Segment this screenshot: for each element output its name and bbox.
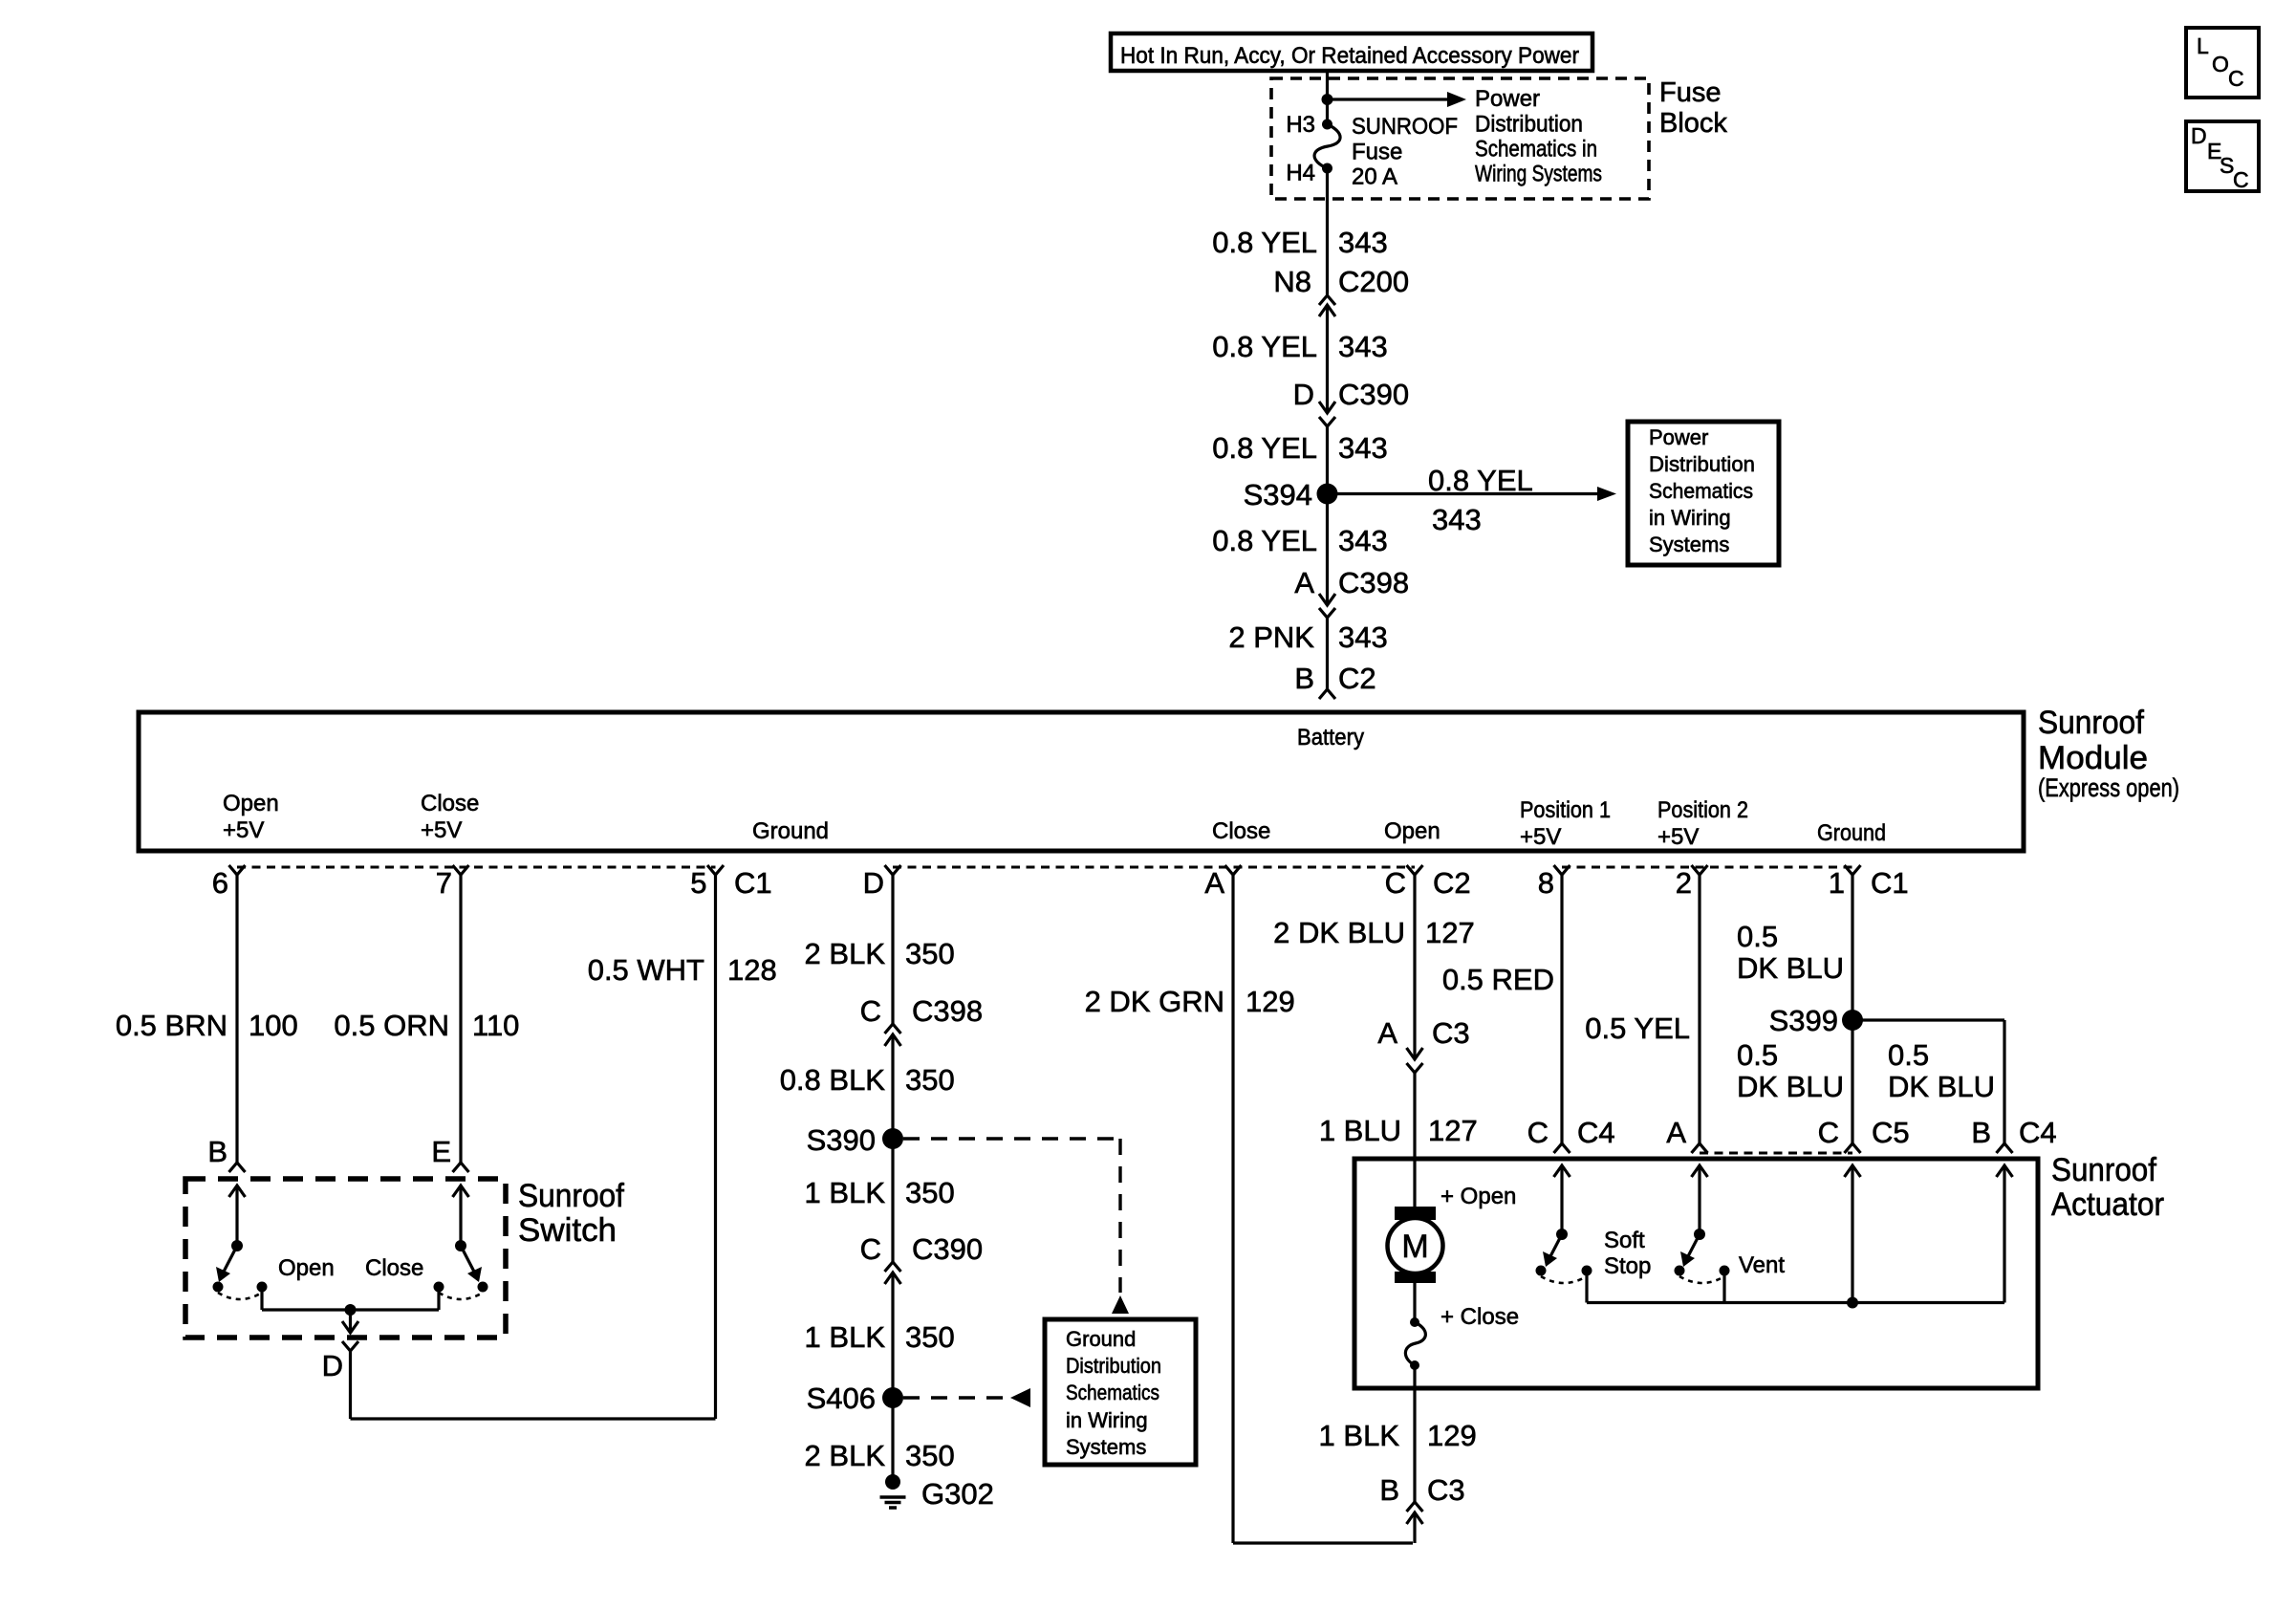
svg-text:Distribution: Distribution: [1066, 1354, 1161, 1378]
svg-text:2: 2: [1676, 866, 1692, 900]
soft stop contact (arm rest): [1536, 1266, 1547, 1276]
wire: motor to thermal contact: [1413, 1283, 1416, 1322]
label: Ground (pin 5 function): [752, 818, 829, 844]
switch: close-side input arrow and pivot: [453, 1186, 469, 1251]
label: Sunroof Module (Express open): [2038, 705, 2179, 802]
svg-text:0.5: 0.5: [1737, 1038, 1778, 1072]
svg-text:DK BLU: DK BLU: [1737, 1070, 1844, 1103]
svg-text:Switch: Switch: [518, 1212, 617, 1249]
svg-text:2 BLK: 2 BLK: [805, 1439, 886, 1472]
svg-text:1: 1: [1829, 866, 1845, 900]
svg-text:1 BLK: 1 BLK: [805, 1320, 886, 1354]
svg-text:0.8 YEL: 0.8 YEL: [1212, 330, 1317, 363]
svg-text:0.5: 0.5: [1737, 920, 1778, 953]
svg-text:C200: C200: [1338, 265, 1409, 298]
label: 1 BLK 350 (S390 to C390): [805, 1176, 955, 1209]
label: + Open (motor terminal): [1440, 1184, 1516, 1209]
label: 0.8 YEL 343 (fuse to C200): [1212, 226, 1387, 259]
svg-text:0.5 YEL: 0.5 YEL: [1585, 1012, 1690, 1045]
svg-text:in Wiring: in Wiring: [1066, 1408, 1148, 1432]
svg-text:C3: C3: [1427, 1473, 1465, 1507]
svg-text:C4: C4: [1577, 1116, 1615, 1149]
wire: C200 to C390: [1326, 305, 1329, 413]
vent contact (arm rest): [1675, 1266, 1685, 1276]
actuator pin B connector C4: [1971, 1116, 2056, 1153]
actuator: pin B (C4) sense wire with arrow: [1997, 1165, 2013, 1303]
node box: Ground Distribution Schematics in Wiring Systems: [1045, 1319, 1196, 1465]
svg-text:E: E: [431, 1135, 451, 1168]
svg-text:343: 343: [1338, 431, 1388, 465]
svg-text:C1: C1: [1871, 866, 1909, 900]
vent switch arm: [1680, 1234, 1700, 1267]
svg-text:0.5: 0.5: [1888, 1038, 1929, 1072]
svg-text:Fuse: Fuse: [1352, 140, 1402, 165]
module pin 7: [436, 865, 469, 900]
svg-text:350: 350: [905, 1439, 955, 1472]
svg-text:Systems: Systems: [1649, 533, 1729, 556]
svg-text:C: C: [860, 994, 881, 1028]
svg-text:B: B: [1294, 662, 1314, 695]
node: Hot In Run, Accy, Or Retained Accessory Power (power feed box): [1111, 33, 1592, 71]
svg-text:0.5 ORN: 0.5 ORN: [334, 1009, 449, 1042]
wire: vent contact down: [1722, 1271, 1725, 1303]
wire: header to H3: [1326, 71, 1329, 124]
svg-text:Schematics in: Schematics in: [1475, 137, 1597, 163]
svg-text:G302: G302: [921, 1477, 994, 1511]
svg-text:1 BLU: 1 BLU: [1319, 1114, 1401, 1147]
svg-text:350: 350: [905, 1063, 955, 1097]
svg-text:A: A: [1204, 866, 1224, 900]
svg-text:0.8 YEL: 0.8 YEL: [1428, 464, 1533, 497]
svg-text:Sunroof: Sunroof: [518, 1178, 625, 1214]
label: Vent: [1739, 1252, 1785, 1278]
svg-text:C: C: [1385, 866, 1406, 900]
svg-text:Vent: Vent: [1739, 1252, 1785, 1278]
svg-text:Ground: Ground: [1817, 820, 1886, 846]
wire: C390 to S394: [1326, 426, 1329, 494]
label: 0.5 YEL: [1585, 1012, 1690, 1045]
label: 0.5 DK BLU (S399 to C5): [1737, 1038, 1844, 1103]
svg-text:C1: C1: [734, 866, 772, 900]
wire: S399 branch right and down: [1852, 1020, 2004, 1143]
svg-text:Position 2: Position 2: [1657, 797, 1748, 823]
svg-text:C: C: [1527, 1116, 1549, 1149]
svg-text:N8: N8: [1273, 265, 1311, 298]
module pin C connector C2: [1385, 865, 1471, 900]
svg-text:Distribution: Distribution: [1475, 112, 1583, 138]
svg-text:Actuator: Actuator: [2051, 1186, 2164, 1223]
svg-text:110: 110: [472, 1009, 519, 1042]
motor protector contact (bottom): [1410, 1360, 1419, 1370]
svg-text:0.5 BRN: 0.5 BRN: [116, 1009, 227, 1042]
svg-text:Sunroof: Sunroof: [2051, 1152, 2157, 1188]
svg-text:Sunroof: Sunroof: [2038, 705, 2145, 741]
junction: sense bus / C5 wire: [1847, 1297, 1858, 1309]
svg-text:SUNROOF: SUNROOF: [1352, 114, 1458, 140]
svg-text:+5V: +5V: [223, 817, 264, 843]
svg-text:C398: C398: [1338, 566, 1409, 599]
svg-text:Close: Close: [365, 1255, 423, 1281]
label: Sunroof Switch: [518, 1178, 625, 1249]
svg-text:2 BLK: 2 BLK: [805, 937, 886, 970]
svg-text:C2: C2: [1338, 662, 1376, 695]
label: Close (switch position): [365, 1255, 423, 1281]
label: Sunroof Actuator: [2051, 1152, 2164, 1223]
svg-text:5: 5: [690, 866, 706, 900]
svg-text:0.8 YEL: 0.8 YEL: [1212, 524, 1317, 557]
switch pin E: [431, 1135, 468, 1172]
dashed reference: S390 to Ground Distribution box: [903, 1139, 1129, 1314]
svg-text:C4: C4: [2019, 1116, 2057, 1149]
svg-text:+5V: +5V: [1520, 824, 1561, 850]
svg-text:L: L: [2197, 33, 2209, 58]
dashed connector group line (actuator pins A,C): [1700, 1152, 1852, 1155]
svg-text:Schematics: Schematics: [1066, 1381, 1159, 1404]
wire: position sense bus: [1587, 1301, 2004, 1304]
svg-text:C390: C390: [912, 1232, 983, 1266]
actuator: pin C (C5) sense wire with arrow: [1845, 1165, 1861, 1303]
svg-text:DK BLU: DK BLU: [1888, 1070, 1995, 1103]
svg-text:A: A: [1666, 1116, 1686, 1149]
dashed throw arc (vent): [1679, 1276, 1724, 1283]
label: Open (pin C function): [1384, 818, 1440, 844]
module pin D: [863, 865, 901, 900]
wire: module pin A down: [1231, 875, 1234, 1543]
svg-text:S390: S390: [807, 1123, 876, 1157]
wire: switch common bus: [262, 1308, 439, 1311]
label: 2 BLK 350 (pin D to C398): [805, 937, 955, 970]
svg-text:B: B: [1971, 1116, 1991, 1149]
label: 0.8 YEL 343 (S394 to C398): [1212, 524, 1387, 557]
svg-text:Hot In Run, Accy, Or Retained: Hot In Run, Accy, Or Retained Accessory …: [1120, 43, 1579, 69]
svg-text:343: 343: [1338, 524, 1388, 557]
svg-text:C398: C398: [912, 994, 983, 1028]
label: 0.5 WHT 128: [588, 953, 777, 987]
wire/arrow: S394 branch 0.8 YEL 343 to Power Distribution Schematics: [1328, 464, 1617, 536]
svg-text:8: 8: [1538, 866, 1554, 900]
wire: module pin 1 to S399: [1851, 875, 1853, 1020]
module pin 2: [1676, 865, 1708, 900]
wire: module pin D to C398: [891, 875, 894, 1024]
node box: Power Distribution Schematics in Wiring Systems: [1628, 422, 1779, 565]
label: 2 DK BLU 127: [1273, 916, 1475, 949]
svg-text:H4: H4: [1286, 161, 1315, 186]
wire: module pin 5 down: [714, 875, 717, 1419]
label: 0.5 DK BLU (S399 branch): [1888, 1038, 1995, 1103]
svg-text:Close: Close: [1212, 818, 1270, 844]
svg-text:B: B: [1379, 1473, 1399, 1507]
svg-text:343: 343: [1432, 503, 1482, 536]
svg-text:7: 7: [436, 866, 452, 900]
splice S394: [1244, 478, 1338, 511]
fuse block (dashed outline): [1271, 78, 1649, 199]
svg-text:Block: Block: [1659, 108, 1727, 139]
switch contact Open: [257, 1282, 268, 1293]
svg-text:129: 129: [1427, 1419, 1477, 1452]
actuator pin C connector C5: [1818, 1116, 1910, 1153]
svg-text:Wiring Systems: Wiring Systems: [1475, 162, 1602, 187]
connector C398 pin A (in-line, arrow down): [1294, 566, 1409, 618]
LOC reference box: [2186, 28, 2259, 98]
wire: module pin 2 to actuator pin A: [1698, 875, 1700, 1143]
svg-text:DK BLU: DK BLU: [1737, 951, 1844, 985]
svg-text:S394: S394: [1244, 478, 1312, 511]
label: 2 PNK 343: [1228, 620, 1387, 654]
actuator: vent input arrow and pivot: [1692, 1165, 1708, 1240]
svg-text:+5V: +5V: [421, 817, 462, 843]
switch contact (arm rest, close side): [478, 1282, 488, 1293]
label: 0.8 YEL 343 (C200 to C390): [1212, 330, 1387, 363]
Sunroof Switch box (dashed): [185, 1179, 506, 1338]
module pin 6: [212, 865, 246, 900]
connector C390 pin D (in-line, arrow down): [1293, 378, 1410, 426]
svg-text:Power: Power: [1649, 425, 1708, 449]
svg-text:343: 343: [1338, 226, 1388, 259]
svg-text:S399: S399: [1769, 1004, 1838, 1037]
wire: C3 to motor: [1413, 1073, 1416, 1207]
svg-text:Soft: Soft: [1604, 1228, 1645, 1253]
module pin 8: [1538, 865, 1570, 900]
svg-text:A: A: [1294, 566, 1314, 599]
label: Close +5V (pin 7 function): [421, 791, 479, 843]
label: 0.5 BRN 100: [116, 1009, 298, 1042]
svg-text:Position 1: Position 1: [1520, 797, 1611, 823]
label: Soft Stop: [1604, 1228, 1651, 1279]
label: 1 BLK 350 (C390 to S406): [805, 1320, 955, 1354]
wire: Open contact down: [260, 1287, 263, 1310]
label: 2 DK GRN 129: [1085, 985, 1295, 1018]
svg-text:0.8 BLK: 0.8 BLK: [780, 1063, 886, 1097]
splice S390: [807, 1123, 903, 1157]
svg-text:C: C: [2233, 167, 2249, 192]
svg-text:M: M: [1401, 1229, 1428, 1265]
module pin 1 connector C1: [1829, 865, 1909, 900]
module pin 5 connector C1: [690, 865, 771, 900]
svg-text:Fuse: Fuse: [1659, 77, 1721, 108]
label: Ground (pin 1 function): [1817, 820, 1886, 846]
svg-text:100: 100: [249, 1009, 298, 1042]
wire: D run right to pin-5 wire: [351, 1417, 716, 1420]
label: Close (pin A function): [1212, 818, 1270, 844]
svg-text:0.5 RED: 0.5 RED: [1442, 963, 1554, 996]
svg-text:1 BLK: 1 BLK: [805, 1176, 886, 1209]
label: 1 BLK 129: [1319, 1419, 1477, 1452]
wire: motor return through box: [1413, 1365, 1416, 1502]
wire: pin A run to motor return: [1233, 1541, 1413, 1544]
svg-text:Distribution: Distribution: [1649, 452, 1755, 476]
svg-text:H3: H3: [1286, 112, 1315, 138]
svg-text:Battery: Battery: [1297, 725, 1364, 751]
motor M (sunroof motor): [1388, 1207, 1443, 1283]
wire: module pin 7 to switch pin E: [459, 875, 462, 1163]
wire: Close contact down: [437, 1287, 440, 1310]
label: 1 BLU 127: [1319, 1114, 1478, 1147]
svg-text:C: C: [860, 1232, 881, 1266]
svg-text:Schematics: Schematics: [1649, 479, 1753, 503]
label: 0.8 YEL 343 (C390 to S394): [1212, 431, 1387, 465]
actuator pin C connector C4: [1527, 1116, 1615, 1153]
wire: module pin 6 to switch pin B: [235, 875, 238, 1163]
connector C390 pin C (in-line, arrow up): [860, 1232, 984, 1284]
Sunroof Actuator box: [1354, 1159, 2038, 1388]
connector C3 pin A (in-line, arrow down): [1377, 1016, 1469, 1073]
svg-text:C5: C5: [1872, 1116, 1910, 1149]
svg-text:2 DK BLU: 2 DK BLU: [1273, 916, 1405, 949]
junction inside fuse block: [1322, 94, 1333, 105]
wire/arrow: common to switch pin D: [342, 1310, 358, 1333]
svg-text:Systems: Systems: [1066, 1435, 1146, 1459]
svg-text:129: 129: [1245, 985, 1295, 1018]
dashed reference: S406 to Ground Distribution box: [903, 1388, 1030, 1407]
svg-text:0.5 WHT: 0.5 WHT: [588, 953, 704, 987]
actuator pin A connector C4: [1666, 1116, 1707, 1153]
wire: S399 to actuator pin C (C5): [1851, 1020, 1853, 1143]
svg-text:+ Close: + Close: [1440, 1304, 1519, 1330]
svg-text:+ Open: + Open: [1440, 1184, 1516, 1209]
wire: C398 to module pin B: [1326, 618, 1329, 689]
module pin B connector C2: [1294, 662, 1375, 699]
svg-text:C390: C390: [1338, 378, 1409, 411]
svg-text:C2: C2: [1433, 866, 1471, 900]
svg-text:C: C: [1818, 1116, 1839, 1149]
label: Position 1 +5V (pin 8 function): [1520, 797, 1611, 850]
svg-text:+5V: +5V: [1657, 824, 1699, 850]
splice S399: [1769, 1004, 1863, 1037]
soft stop switch arm: [1543, 1234, 1562, 1267]
pin H3: [1286, 112, 1332, 138]
dashed throw arc (open side): [218, 1293, 262, 1299]
svg-text:Open: Open: [1384, 818, 1440, 844]
svg-text:0.8 YEL: 0.8 YEL: [1212, 431, 1317, 465]
svg-text:Ground: Ground: [1066, 1327, 1136, 1351]
Sunroof Module box: [139, 712, 2024, 851]
svg-text:2 DK GRN: 2 DK GRN: [1085, 985, 1224, 1018]
label: Position 2 +5V (pin 2 function): [1657, 797, 1748, 850]
motor protector contact (top): [1410, 1317, 1419, 1327]
svg-text:O: O: [2212, 52, 2229, 76]
label: Battery (module pin function): [1297, 725, 1364, 751]
svg-text:(Express open): (Express open): [2038, 773, 2179, 802]
connector C200 pin N8 (in-line, arrow up): [1273, 265, 1409, 316]
wire: C398 to C390 (through S390): [891, 1034, 894, 1262]
module pin A: [1204, 865, 1241, 900]
wire: module pin C to C3: [1413, 875, 1416, 1059]
svg-text:2 PNK: 2 PNK: [1228, 620, 1314, 654]
splice S406: [807, 1382, 903, 1415]
dashed connector group line C1 (pins 6,7,5): [237, 866, 716, 869]
wire: module pin 8 to actuator pin C: [1560, 875, 1563, 1143]
svg-text:D: D: [2191, 123, 2207, 148]
wire: C3 pin B to pin A run: [1413, 1512, 1416, 1543]
vent contact (right): [1720, 1266, 1730, 1276]
actuator: soft stop input arrow and pivot: [1554, 1165, 1570, 1240]
label: Power Distribution Schematics in Wiring Systems (fuse block): [1475, 86, 1602, 187]
switch contact (arm rest, open side): [213, 1282, 224, 1293]
DESC reference box: [2186, 121, 2259, 192]
svg-text:127: 127: [1428, 1114, 1478, 1147]
svg-text:D: D: [1293, 378, 1314, 411]
switch pin B: [207, 1135, 245, 1172]
svg-text:Module: Module: [2038, 740, 2148, 776]
svg-text:Open: Open: [223, 791, 279, 816]
fuse SUNROOF 20A (element curve): [1314, 124, 1340, 168]
svg-text:C3: C3: [1432, 1016, 1470, 1050]
motor thermal protector curve: [1405, 1322, 1425, 1365]
dashed throw arc (close side): [439, 1293, 483, 1299]
switch: open-side input arrow and pivot: [229, 1186, 246, 1251]
switch contact Close: [434, 1282, 444, 1293]
svg-text:Close: Close: [421, 791, 479, 816]
label: 0.5 ORN 110: [334, 1009, 519, 1042]
label: + Close (motor terminal): [1440, 1304, 1519, 1330]
svg-text:D: D: [863, 866, 884, 900]
svg-text:A: A: [1377, 1016, 1397, 1050]
svg-text:Ground: Ground: [752, 818, 829, 844]
svg-text:Stop: Stop: [1604, 1253, 1651, 1279]
label: 0.5 DK BLU (module pin 1 wire): [1737, 920, 1844, 985]
svg-text:127: 127: [1425, 916, 1475, 949]
svg-text:1 BLK: 1 BLK: [1319, 1419, 1400, 1452]
wire: switch pin D down: [349, 1351, 352, 1419]
switch pin D: [322, 1341, 358, 1382]
svg-text:Power: Power: [1475, 86, 1540, 112]
svg-text:350: 350: [905, 1176, 955, 1209]
svg-text:0.8 YEL: 0.8 YEL: [1212, 226, 1317, 259]
switch arm (open side): [216, 1246, 237, 1282]
label: 0.5 RED: [1442, 963, 1554, 996]
label: Open +5V (pin 6 function): [223, 791, 279, 843]
svg-text:D: D: [322, 1349, 343, 1382]
svg-text:350: 350: [905, 1320, 955, 1354]
label: Open (switch position): [278, 1255, 335, 1281]
arrow: fuse block feed to Power Distribution text: [1328, 92, 1467, 107]
wire: C390 to G302 (through S406): [891, 1273, 894, 1480]
svg-text:S406: S406: [807, 1382, 876, 1415]
label: 0.8 BLK 350: [780, 1063, 955, 1097]
dashed throw arc (soft stop): [1541, 1276, 1587, 1283]
wire: H4 to C200: [1326, 168, 1329, 294]
svg-text:B: B: [207, 1135, 227, 1168]
pin H4: [1286, 161, 1332, 186]
svg-text:in Wiring: in Wiring: [1649, 506, 1731, 530]
switch arm (close side): [461, 1246, 482, 1282]
svg-text:6: 6: [212, 866, 228, 900]
wire: S394 to C398: [1326, 494, 1329, 606]
label: SUNROOF Fuse 20 A: [1352, 114, 1458, 190]
connector C3 pin B (in-line, arrow up): [1379, 1473, 1464, 1524]
svg-text:343: 343: [1338, 620, 1388, 654]
connector C398 pin C (in-line, arrow up): [860, 994, 984, 1046]
dashed connector group line C2 (pins D,A,C): [893, 866, 1415, 869]
ground G302: [880, 1474, 994, 1511]
svg-text:Open: Open: [278, 1255, 335, 1281]
svg-text:350: 350: [905, 937, 955, 970]
wire: soft stop contact down: [1585, 1271, 1588, 1303]
svg-text:128: 128: [727, 953, 777, 987]
junction: switch common: [345, 1304, 357, 1316]
svg-text:20 A: 20 A: [1352, 164, 1397, 190]
dashed connector group line C1 (pins 8,2,1): [1562, 866, 1852, 869]
soft stop contact (right): [1582, 1266, 1592, 1276]
svg-text:343: 343: [1338, 330, 1388, 363]
svg-text:C: C: [2228, 66, 2244, 91]
label: 2 BLK 350 (S406 to G302): [805, 1439, 955, 1472]
label: Fuse Block: [1659, 77, 1727, 139]
